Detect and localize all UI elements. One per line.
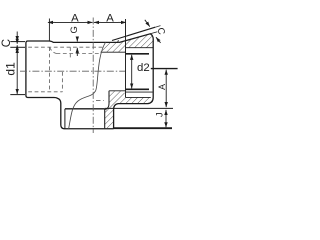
hatch section top band bbox=[101, 34, 154, 52]
svg-text:C: C bbox=[1, 39, 13, 47]
thread crest bottom bbox=[126, 88, 150, 90]
plate top edge bbox=[65, 108, 105, 110]
hidden line bore top left bbox=[28, 46, 103, 48]
hidden line run bore bottom bbox=[28, 91, 62, 93]
bore top line bbox=[101, 51, 126, 53]
hidden line branch bore left bbox=[61, 72, 63, 92]
hidden plate inner shoulder bbox=[96, 100, 104, 102]
centerline vertical bbox=[92, 18, 94, 134]
plate top extension line bbox=[105, 107, 173, 109]
thread major bottom bbox=[126, 91, 153, 93]
dimension d2 bbox=[131, 55, 133, 89]
dimension A right bbox=[165, 70, 167, 107]
dimension A1 bbox=[48, 19, 93, 41]
hidden socket cone top bbox=[50, 47, 57, 53]
hidden line left shoulder bbox=[49, 47, 51, 92]
thread crest top bbox=[126, 47, 153, 49]
socket shoulder with A2 extension bbox=[125, 19, 127, 97]
recess bottom line bbox=[126, 96, 151, 98]
cone seat diagonal and right face bbox=[114, 34, 154, 129]
svg-text:A: A bbox=[157, 84, 167, 90]
body outline left bbox=[26, 41, 119, 129]
svg-text:d2: d2 bbox=[137, 62, 150, 74]
svg-text:A: A bbox=[71, 12, 79, 24]
svg-text:J: J bbox=[155, 112, 165, 117]
hidden line top port bore bbox=[69, 47, 71, 60]
dimension C right bbox=[145, 20, 161, 43]
centerline horizontal bbox=[20, 70, 125, 72]
svg-text:G: G bbox=[68, 26, 79, 33]
dimension J bbox=[165, 110, 167, 127]
svg-text:d1: d1 bbox=[4, 62, 18, 76]
dimension A2 bbox=[94, 21, 126, 23]
thread minor top bbox=[126, 53, 150, 55]
bore bottom line bbox=[109, 90, 126, 92]
break line curve bbox=[69, 42, 106, 129]
hidden line run bore top bbox=[57, 53, 101, 55]
hatch section bottom block bbox=[105, 91, 153, 128]
d2 leader line bbox=[151, 68, 178, 70]
cone outer thin extension bbox=[155, 26, 160, 28]
bottom face line bbox=[65, 128, 114, 130]
cone lip hook bbox=[118, 40, 119, 42]
plate left inner edge bbox=[64, 109, 66, 129]
cone outer diagonal bbox=[112, 27, 155, 40]
plate left wall bbox=[105, 91, 109, 128]
svg-text:A: A bbox=[106, 12, 114, 24]
